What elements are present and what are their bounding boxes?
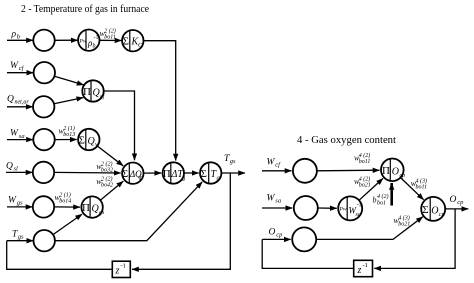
svg-text:4 (2): 4 (2) [377,193,389,200]
wire W_cf circle to Pi O_cp [317,169,380,172]
node W_gs input label [8,195,23,206]
wire Sigma Q_w to Sigma dQ diagonal [97,146,123,166]
label w2(2)_bo11 [100,28,116,41]
wire W_sa circle to Pw block [318,207,337,209]
node W_sa input label [10,129,25,140]
svg-text:4 (2): 4 (2) [359,176,371,183]
svg-text:Π: Π [382,165,390,177]
svg-text:W: W [10,129,19,139]
svg-text:gs: gs [18,233,24,240]
wire bias arrow up into Pi O_cp [390,183,393,206]
svg-text:Q: Q [6,162,13,172]
neuron input circle row3 [33,96,54,117]
svg-text:sa: sa [275,197,281,204]
svg-text:2 (2): 2 (2) [101,161,113,168]
label w4(2)_bo21 [354,176,371,189]
wire O_cp right input arrow [262,238,291,240]
svg-text:-1: -1 [121,263,126,270]
block Pw W_sa^-1 [338,196,362,220]
svg-text:Σ: Σ [422,204,428,216]
block Pi O_cp [381,159,405,182]
label w2(1)_bo13 [59,125,76,138]
svg-text:net,ar: net,ar [15,100,30,106]
svg-text:W: W [8,195,17,205]
wire Pw block to Pi O_cp diagonal [359,178,383,200]
wire z^-1 right to O_cp input [262,239,354,268]
svg-text:W: W [10,61,19,71]
svg-text:4 (3): 4 (3) [416,178,428,185]
svg-text:Σ: Σ [122,168,128,180]
wire feedback down from output [132,173,230,269]
wire Pi O_cp to Sigma O_cp diagonal [401,178,424,200]
neuron input circle row7 [34,230,55,251]
wire Q_net circle to Pi Q_cf [54,98,83,104]
wire T_gs input arrow (from feedback) [7,240,34,242]
wire right feedback down [374,209,455,269]
block Sigma dQ_Sigma [122,163,144,184]
svg-text:bo21: bo21 [398,222,410,228]
svg-text:Π: Π [83,86,91,98]
wire W_cf right input arrow [262,170,292,172]
svg-text:Σ: Σ [79,134,85,146]
node O_cp output label [450,195,465,206]
wire Q_sl circle to Sigma dQ [54,171,120,174]
wire Q_cf output right and down into Sigma dQ [104,91,135,160]
svg-text:2 (1): 2 (1) [63,125,75,132]
neuron input circle row4 [33,129,54,150]
svg-text:4 (2): 4 (2) [359,152,371,159]
svg-text:Σ: Σ [139,176,142,182]
wire z^-1 to T_gs input [7,241,113,270]
block z^-1 right [354,260,373,276]
neuron input circle row2 [34,62,55,83]
neuron right input circle row3 [292,227,316,251]
svg-text:bo21: bo21 [359,183,371,189]
wire Pi Q_gs to Sigma dQ diagonal [100,181,123,200]
block Pi dT_g [163,162,186,183]
svg-text:4 (3): 4 (3) [398,215,410,222]
label w4(2)_bo11 [354,152,370,165]
svg-text:Π: Π [163,168,171,180]
block Sigma O_cp [421,197,445,221]
svg-text:O: O [392,166,399,177]
svg-text:bo42: bo42 [101,182,113,189]
svg-text:sl: sl [14,166,19,173]
svg-text:2 (2): 2 (2) [104,28,116,35]
label w4(3)_bo21 [394,215,411,228]
svg-text:O: O [269,227,276,237]
label w2(2)_bo42 [96,176,113,189]
wire row1 circle to Pw block [55,39,78,41]
neuron input circle row5 [33,162,54,183]
wire Pi dT to Sigma T_g [184,172,199,174]
wire T_gs output arrow [221,172,245,174]
wire W_sa right input arrow [262,207,292,209]
wire Q_sl input arrow [6,171,33,173]
svg-text:Σ: Σ [201,168,207,180]
svg-text:-1: -1 [363,262,368,269]
node W_sa right input label [267,193,282,204]
svg-text:b: b [373,196,377,205]
wire Sigma dQ to Pi dT [144,172,162,174]
wire W_sa circle to Sigma Q_w [55,139,77,141]
svg-text:2 (2): 2 (2) [101,176,113,183]
wire W_cf circle to Pi Q_cf [54,76,83,85]
svg-text:W: W [267,193,276,203]
svg-text:Pw: Pw [79,39,87,45]
wire W_cf input arrow [7,72,33,74]
wire W_gs circle to Pi Q_gs [54,206,80,208]
svg-text:ρ: ρ [11,30,17,40]
block Sigma T_g [200,162,221,183]
svg-text:Q: Q [138,42,143,49]
svg-text:Q: Q [7,95,14,105]
svg-text:cp: cp [439,212,445,218]
node T_gs input label [12,229,24,240]
label w4(3)_bo11 [411,178,427,191]
neuron right input circle row2 [294,196,318,220]
wire Pw block to Sigma K_Q [100,39,122,41]
svg-text:b: b [93,44,96,50]
svg-text:-1: -1 [357,203,362,209]
svg-text:sa: sa [356,212,361,218]
node rho_b input label [11,30,21,41]
node W_cf right input label [267,157,282,168]
block Pi Q_cf [82,80,105,101]
svg-text:Π: Π [82,202,90,214]
neuron right input circle row1 [293,159,317,183]
svg-text:bo13: bo13 [63,132,75,138]
label w2(2)_bo32 [96,161,113,174]
wire Q_net_ar input arrow [7,106,33,108]
svg-text:Pw: Pw [339,207,347,213]
node W_cf input label [10,61,25,72]
neuron input circle row6 [33,196,54,217]
svg-text:W: W [267,157,276,167]
svg-text:z: z [115,266,120,277]
svg-text:z: z [357,265,362,276]
wire rho_b input arrow [7,39,33,41]
svg-text:gs: gs [230,158,236,165]
wire O_cp circle right then diagonal to Sigma O_cp [316,217,423,240]
wire O_cp output arrow [445,208,468,210]
svg-text:bo14: bo14 [59,198,71,205]
node Q_sl input label [6,162,18,173]
block Sigma K_Q [122,30,143,51]
block z^-1 left [112,261,130,277]
svg-text:gs: gs [99,210,105,216]
node T_gs output label [224,154,236,165]
wire W_gs input arrow [7,206,33,208]
svg-text:bo11: bo11 [416,185,428,191]
svg-text:Σ: Σ [123,36,129,48]
svg-text:O: O [450,195,457,205]
svg-text:gs: gs [17,199,23,206]
block Pw/rho_b^-1 [78,30,99,51]
wire K_Q output right and down to Pi dT [144,41,176,161]
label b4(2)_bo1 [373,193,389,207]
svg-text:O: O [431,205,438,216]
svg-text:-1: -1 [94,35,99,41]
svg-text:bo1: bo1 [377,201,386,207]
svg-text:2 - Temperature of gas in furn: 2 - Temperature of gas in furnace [21,4,149,15]
neuron input circle row1 [33,30,54,51]
svg-text:2 (1): 2 (1) [59,191,71,198]
svg-text:bo11: bo11 [359,159,371,165]
svg-text:4 - Gas oxygen content: 4 - Gas oxygen content [297,135,396,146]
node O_cp right input label [269,227,284,238]
svg-text:cp: cp [276,231,283,238]
node Q_net_ar input label [7,95,29,106]
block Sigma Q_w [78,129,100,150]
wire T_gs circle right then diagonal to Sigma T_g [55,182,202,241]
wire T_gs circle to Pi Q_gs diagonal [53,214,82,235]
block Pi Q_gs [81,196,105,217]
svg-text:sa: sa [19,133,25,140]
svg-text:cp: cp [457,199,464,206]
wire W_sa input arrow [7,139,33,141]
label w2(1)_bo14 [55,191,72,204]
